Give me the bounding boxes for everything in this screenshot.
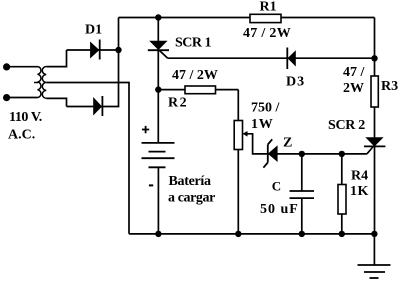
svg-text:A.C.: A.C. [8,128,35,143]
svg-text:R3: R3 [381,79,398,94]
svg-text:D1: D1 [85,23,102,38]
svg-text:R1: R1 [260,0,277,15]
svg-text:SCR 2: SCR 2 [328,118,365,133]
svg-text:SCR 1: SCR 1 [175,36,212,51]
svg-text:1W: 1W [251,117,274,132]
svg-text:Z: Z [283,136,292,151]
svg-text:D3: D3 [286,75,305,90]
svg-text:750 /: 750 / [251,101,281,116]
svg-text:47 / 2W: 47 / 2W [243,26,291,41]
svg-text:110 V.: 110 V. [9,110,42,125]
svg-text:a cargar: a cargar [168,190,215,205]
svg-text:1K: 1K [350,184,369,199]
svg-text:C: C [272,179,281,194]
svg-text:50 uF: 50 uF [260,202,299,217]
svg-text:R2: R2 [168,96,188,111]
svg-text:2W: 2W [343,81,364,96]
svg-text:47 / 2W: 47 / 2W [172,68,218,83]
svg-text:R4: R4 [351,169,368,184]
svg-text:Batería: Batería [169,174,212,189]
svg-text:47 /: 47 / [343,65,366,80]
